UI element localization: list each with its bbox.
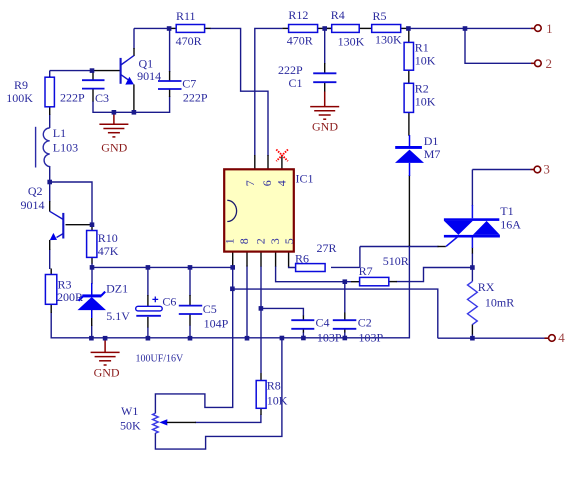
svg-text:7: 7 xyxy=(243,180,257,186)
svg-text:200R: 200R xyxy=(57,290,83,304)
svg-text:130K: 130K xyxy=(375,32,402,46)
svg-text:C7: C7 xyxy=(182,77,196,91)
svg-text:1: 1 xyxy=(222,238,236,244)
svg-text:1: 1 xyxy=(546,21,553,36)
svg-text:C2: C2 xyxy=(358,316,372,330)
svg-text:50K: 50K xyxy=(120,418,141,432)
svg-text:R9: R9 xyxy=(14,78,28,92)
svg-text:4: 4 xyxy=(275,180,289,186)
svg-text:L1: L1 xyxy=(53,126,66,140)
svg-text:10K: 10K xyxy=(415,95,436,109)
svg-text:103P: 103P xyxy=(359,331,384,345)
svg-text:100K: 100K xyxy=(6,91,33,105)
svg-text:T1: T1 xyxy=(500,204,513,218)
svg-text:R5: R5 xyxy=(373,9,387,23)
svg-text:5: 5 xyxy=(282,238,296,244)
svg-text:10mR: 10mR xyxy=(485,296,514,310)
svg-text:R11: R11 xyxy=(176,9,196,23)
svg-text:R4: R4 xyxy=(331,8,345,22)
svg-text:R7: R7 xyxy=(359,264,373,278)
svg-text:5.1V: 5.1V xyxy=(106,309,130,323)
svg-text:2: 2 xyxy=(546,56,553,71)
svg-text:D1: D1 xyxy=(424,134,439,148)
svg-text:510R: 510R xyxy=(383,254,409,268)
svg-text:L103: L103 xyxy=(53,141,78,155)
svg-text:16A: 16A xyxy=(500,218,521,232)
svg-text:470R: 470R xyxy=(176,34,202,48)
svg-text:DZ1: DZ1 xyxy=(106,282,128,296)
svg-text:4: 4 xyxy=(558,330,565,345)
svg-text:C6: C6 xyxy=(162,295,176,309)
svg-text:M7: M7 xyxy=(424,147,441,161)
svg-text:222P: 222P xyxy=(278,63,303,77)
svg-text:10K: 10K xyxy=(415,54,436,68)
svg-text:3: 3 xyxy=(543,162,550,177)
svg-text:IC1: IC1 xyxy=(296,172,314,186)
svg-text:GND: GND xyxy=(94,366,120,380)
svg-text:470R: 470R xyxy=(287,33,313,47)
svg-text:104P: 104P xyxy=(204,317,229,331)
svg-text:Q1: Q1 xyxy=(139,56,154,70)
svg-text:R8: R8 xyxy=(267,379,281,393)
svg-text:9014: 9014 xyxy=(137,69,161,83)
svg-text:222P: 222P xyxy=(183,90,208,104)
svg-text:GND: GND xyxy=(101,141,127,155)
svg-text:W1: W1 xyxy=(121,404,138,418)
svg-text:8: 8 xyxy=(237,238,251,244)
svg-text:R12: R12 xyxy=(288,8,308,22)
svg-text:47K: 47K xyxy=(98,244,119,258)
svg-text:R1: R1 xyxy=(415,41,429,55)
svg-text:9014: 9014 xyxy=(21,198,45,212)
svg-text:2: 2 xyxy=(254,238,268,244)
svg-text:103P: 103P xyxy=(317,331,342,345)
svg-text:3: 3 xyxy=(268,238,282,244)
svg-text:6: 6 xyxy=(260,180,274,186)
svg-text:GND: GND xyxy=(312,120,338,134)
svg-text:130K: 130K xyxy=(338,34,365,48)
svg-text:R6: R6 xyxy=(295,251,309,265)
svg-text:C5: C5 xyxy=(203,302,217,316)
svg-text:C1: C1 xyxy=(289,76,303,90)
svg-text:Q2: Q2 xyxy=(28,184,43,198)
svg-text:100UF/16V: 100UF/16V xyxy=(136,354,185,365)
svg-text:222P: 222P xyxy=(60,90,85,104)
svg-text:10K: 10K xyxy=(267,393,288,407)
svg-text:27R: 27R xyxy=(317,241,337,255)
svg-text:R2: R2 xyxy=(415,81,429,95)
svg-text:RX: RX xyxy=(478,280,495,294)
svg-text:C4: C4 xyxy=(316,316,330,330)
svg-text:C3: C3 xyxy=(95,91,109,105)
